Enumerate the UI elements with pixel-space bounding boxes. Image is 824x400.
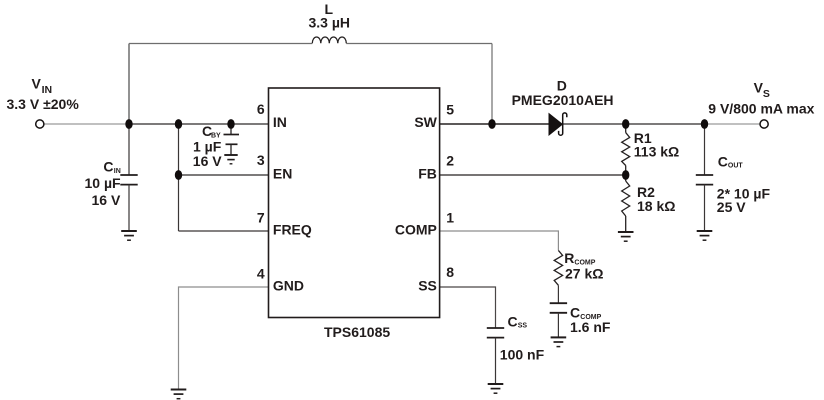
svg-text:113 kΩ: 113 kΩ xyxy=(634,144,680,160)
svg-text:10 µF: 10 µF xyxy=(85,175,122,191)
svg-text:FREQ: FREQ xyxy=(273,221,312,237)
svg-text:1.6 nF: 1.6 nF xyxy=(570,319,611,335)
svg-text:FB: FB xyxy=(418,165,437,181)
svg-text:6: 6 xyxy=(257,101,265,117)
svg-text:100 nF: 100 nF xyxy=(500,346,545,362)
svg-text:R: R xyxy=(564,250,574,266)
svg-text:3: 3 xyxy=(257,152,265,168)
svg-text:PMEG2010AEH: PMEG2010AEH xyxy=(512,92,614,108)
svg-text:COMP: COMP xyxy=(395,221,437,237)
svg-text:18 kΩ: 18 kΩ xyxy=(637,198,675,214)
svg-text:EN: EN xyxy=(273,165,292,181)
svg-text:7: 7 xyxy=(257,209,265,225)
svg-text:C: C xyxy=(570,305,580,321)
svg-text:1: 1 xyxy=(446,209,454,225)
svg-text:OUT: OUT xyxy=(728,162,744,169)
svg-text:9 V/800 mA max: 9 V/800 mA max xyxy=(708,100,814,116)
svg-text:3.3 µH: 3.3 µH xyxy=(309,15,351,31)
svg-text:16 V: 16 V xyxy=(193,153,222,169)
svg-text:4: 4 xyxy=(257,265,265,281)
svg-text:V: V xyxy=(32,75,42,91)
svg-text:C: C xyxy=(718,154,728,170)
svg-text:TPS61085: TPS61085 xyxy=(324,324,390,340)
svg-text:S: S xyxy=(763,88,770,100)
svg-text:SS: SS xyxy=(418,277,437,293)
svg-text:8: 8 xyxy=(446,264,454,280)
svg-text:16 V: 16 V xyxy=(91,192,120,208)
svg-text:1 µF: 1 µF xyxy=(193,139,222,155)
svg-text:C: C xyxy=(508,314,518,330)
svg-text:GND: GND xyxy=(273,277,304,293)
svg-text:SS: SS xyxy=(518,323,528,330)
svg-text:C: C xyxy=(103,159,113,175)
svg-text:IN: IN xyxy=(114,168,121,175)
svg-text:IN: IN xyxy=(42,84,53,96)
svg-text:25 V: 25 V xyxy=(717,199,746,215)
svg-text:27 kΩ: 27 kΩ xyxy=(565,266,603,282)
svg-text:5: 5 xyxy=(446,101,454,117)
svg-text:2: 2 xyxy=(446,153,454,169)
svg-text:SW: SW xyxy=(414,114,437,130)
svg-text:IN: IN xyxy=(273,114,287,130)
svg-text:3.3 V ±20%: 3.3 V ±20% xyxy=(7,96,80,112)
